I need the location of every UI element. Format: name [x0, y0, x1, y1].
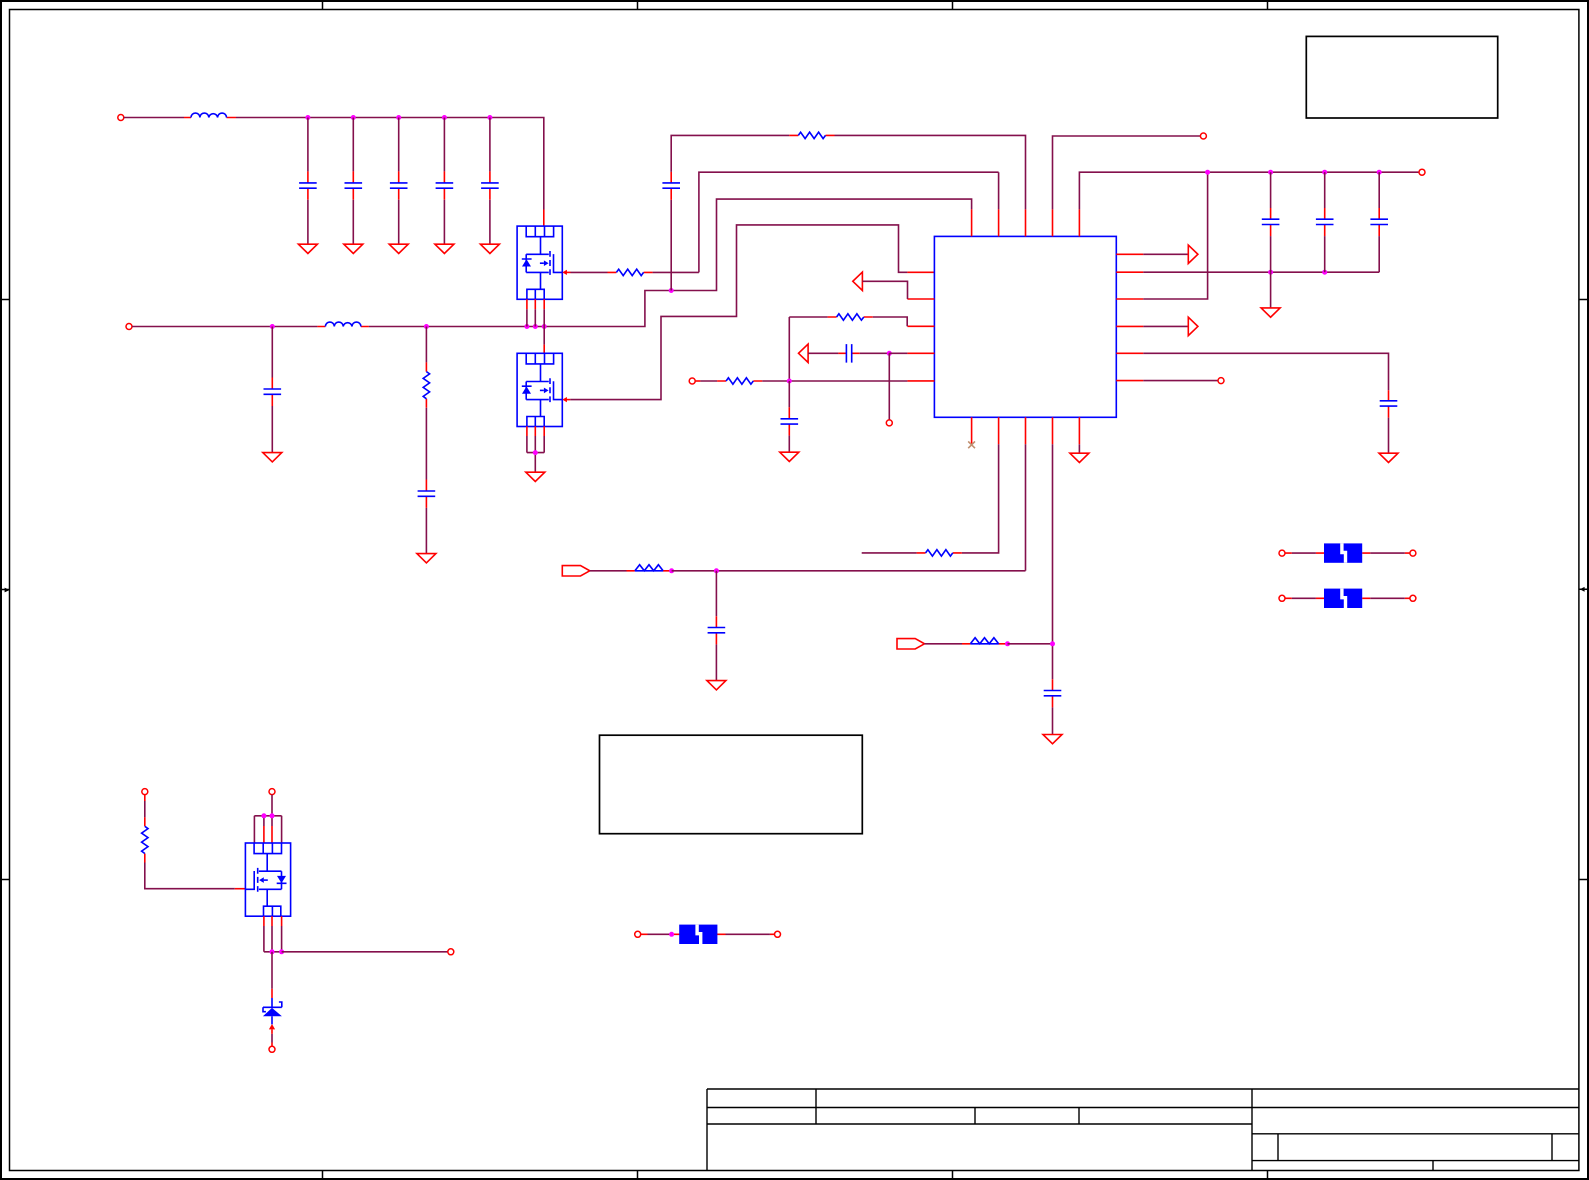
wire — [862, 281, 907, 299]
wire — [425, 408, 427, 480]
wire stub — [862, 552, 917, 554]
capacitor C6 — [271, 327, 273, 378]
wire IC pin B5 to ground — [1078, 444, 1080, 453]
ground under R2 rail — [1270, 272, 1272, 307]
IC U1 — [934, 236, 1116, 417]
terminal — [1218, 378, 1224, 384]
wire drain drop into Q1 — [543, 210, 545, 227]
IC left pins — [907, 299, 934, 381]
ferrite bead FB1 — [1279, 550, 1285, 556]
port arrow into IC pin L2 — [853, 272, 863, 290]
port arrow out of IC pin R4 — [1143, 325, 1188, 327]
zener diode D1 — [263, 998, 282, 1024]
junction — [1050, 641, 1055, 646]
resistor R9 — [144, 795, 146, 863]
capacitor C13 — [1378, 172, 1380, 208]
terminal J3 (feedback input) — [689, 378, 695, 384]
wire drain drop — [254, 795, 281, 843]
inductor L1 — [184, 117, 236, 119]
gate pin arrowhead Q1 — [562, 270, 567, 275]
terminal J2 (second input) — [126, 324, 132, 330]
resistor R4 (comp) — [789, 316, 827, 318]
ground — [344, 244, 363, 253]
junction dots VCC rail — [1205, 170, 1210, 175]
terminal — [1200, 133, 1206, 139]
wire IC pin R6 to terminal — [1143, 380, 1218, 382]
ground — [1043, 735, 1062, 744]
wire IC pin R5 to C14 — [1143, 353, 1388, 390]
capacitor C8 — [425, 480, 427, 508]
IC bottom pins — [972, 417, 1080, 444]
wire Q1 source stubs to rail — [527, 299, 544, 309]
ferrite bead FB3 — [635, 931, 641, 937]
resistor R6 — [917, 552, 962, 554]
border centering arrow right — [1580, 587, 1585, 592]
wire BST: junction up through cap — [670, 200, 672, 291]
ground — [435, 244, 454, 253]
terminal (drain top) — [269, 789, 275, 795]
ferrite bead FB2 — [1279, 595, 1285, 601]
resistor R7 (sawtooth) — [627, 570, 672, 572]
capacitor C5 — [489, 118, 491, 172]
ground — [298, 244, 317, 253]
capacitor C4 — [443, 118, 445, 172]
ground — [707, 681, 726, 690]
wire source to terminal — [282, 951, 448, 953]
wire rail 2 — [132, 326, 317, 328]
junction — [669, 288, 674, 293]
resistor R5 (fb) — [695, 380, 700, 382]
resistor R1 (gate) — [608, 271, 653, 273]
junction — [787, 379, 792, 384]
ground — [263, 453, 282, 462]
IC right pins — [1116, 254, 1143, 380]
wire rail to Q2 drain — [543, 327, 545, 345]
wire comp node down — [788, 317, 790, 381]
gate pin arrowhead Q2 — [562, 397, 567, 402]
terminal — [269, 1046, 275, 1052]
ground — [1070, 453, 1089, 462]
ground — [417, 554, 436, 563]
capacitor C2 — [352, 118, 354, 172]
ground — [1379, 453, 1398, 462]
junction — [714, 568, 719, 573]
wire to IC pin T3 — [835, 135, 1026, 209]
flag port P1 — [562, 566, 590, 576]
wire to IC pin L5 — [762, 380, 907, 382]
wire IC pin B2 to R6 — [962, 444, 999, 553]
inductor L2 — [317, 326, 369, 328]
wire Q2 source stubs — [527, 426, 544, 436]
wire Q3 source stubs — [264, 916, 282, 926]
IC top pins — [972, 209, 1080, 236]
wire — [925, 643, 963, 645]
transistor Q2 (lower FET block) — [517, 353, 562, 426]
wire top rail — [236, 118, 544, 210]
capacitor C1 — [307, 118, 309, 172]
resistor R8 (sawtooth) — [962, 643, 1008, 645]
flag port P2 — [897, 639, 925, 649]
terminal — [448, 949, 454, 955]
resistor R2 (top) — [789, 134, 834, 136]
wire gate Q2 to IC pin L1 — [570, 225, 907, 400]
wire IC pin R2 to caps — [1143, 271, 1379, 273]
wire — [124, 117, 184, 119]
wire gate Q1 to IC — [653, 172, 999, 272]
junction — [669, 568, 674, 573]
junction dots — [270, 949, 275, 954]
ground — [526, 472, 545, 481]
terminal J1 (top input) — [118, 115, 124, 121]
wire IC pin R3 up to VCC rail — [1143, 172, 1207, 299]
junction — [1005, 641, 1010, 646]
transistor Q3 (bottom-left FET block, mirrored) — [245, 843, 290, 916]
ground — [480, 244, 499, 253]
capacitor C12 — [1324, 172, 1326, 208]
wire gate Q1 — [571, 271, 608, 273]
wire to IC pin L4 — [889, 352, 907, 354]
capacitor C16 — [1052, 679, 1054, 707]
capacitor C9 (series, horizontal) — [808, 352, 838, 354]
wire to IC pin B4 — [1008, 444, 1053, 679]
notes box top right — [1306, 36, 1497, 118]
junction dots — [261, 813, 266, 818]
wire net SW1: rail to IC pin T1 — [544, 199, 972, 326]
red arrow on zener anode — [269, 1024, 275, 1029]
capacitor C15 — [715, 571, 717, 616]
capacitor C3 — [398, 118, 400, 172]
junction dots on top rail — [305, 115, 310, 120]
wire junction down to test point — [888, 353, 890, 420]
wire IC pin T4 to terminal — [1053, 136, 1201, 209]
junction — [887, 351, 892, 356]
wire down to zener — [271, 952, 273, 989]
wire VCC rail (pin T5) — [1079, 172, 1419, 209]
port arrow out of IC pin R1 — [1143, 253, 1188, 255]
capacitor C14 — [1388, 390, 1390, 417]
transistor Q1 (upper FET block) — [517, 226, 562, 299]
capacitor C10 — [788, 381, 790, 407]
wire to IC pin B3 — [672, 444, 1026, 571]
capacitor C11 — [1270, 172, 1272, 208]
ground — [389, 244, 408, 253]
wire gate Q3 — [145, 863, 235, 889]
wire to IC pin L3 — [873, 317, 907, 326]
terminal (gate pullup top) — [142, 789, 148, 795]
port arrow (comp cap) — [799, 344, 809, 362]
terminal — [1419, 169, 1425, 175]
ground — [780, 452, 799, 461]
wire rail 2 cont — [369, 326, 544, 328]
junction dots rail2 — [270, 324, 275, 329]
capacitor C7 (bootstrap) — [662, 183, 680, 188]
notes box bottom middle — [600, 735, 863, 834]
resistor R3 (divider) — [425, 327, 427, 363]
border centering arrow left — [5, 588, 10, 593]
wire — [590, 570, 627, 572]
no-connect X on pin B1 — [968, 441, 975, 448]
title block — [707, 1089, 1580, 1171]
terminal — [886, 420, 892, 426]
junction — [533, 450, 538, 455]
